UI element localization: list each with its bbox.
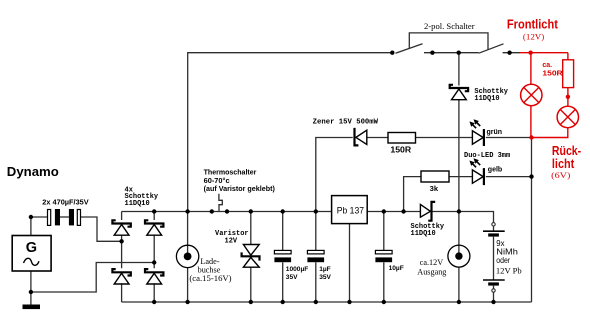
node dynamo plus junction (29, 215, 33, 219)
node AC1 bridge left (119, 239, 123, 243)
diode D2 bridge upper-right 11DQ10 (145, 220, 163, 235)
svg-text:oder: oder (496, 256, 510, 265)
wire zener to 150R (367, 137, 388, 139)
svg-text:3k: 3k (430, 184, 439, 193)
node ruecklicht junction red (529, 135, 533, 139)
node schottky top branch (457, 51, 461, 55)
wire right rail vertical (531, 138, 533, 303)
node thermoswitch right (225, 209, 229, 213)
node AC2 bridge right (152, 260, 156, 264)
resistor 3k box (421, 171, 449, 182)
node Pb137 ground (347, 300, 351, 304)
generator G dynamo box (12, 236, 51, 272)
svg-text:1µF: 1µF (319, 266, 331, 273)
svg-text:11DQ10: 11DQ10 (125, 200, 150, 208)
wire cap C1 branch (282, 212, 284, 303)
diode D5 schottky 11DQ10 top branch (450, 85, 468, 100)
node 3k riser (401, 209, 405, 213)
wire input bus rectifier to Pb137 (122, 211, 332, 213)
switch S2 blade (479, 44, 504, 53)
switch linkage bracket (409, 33, 488, 50)
wire gruen LED to right rail (486, 137, 530, 139)
wire ground stub (30, 292, 32, 305)
wire bridge right column (153, 212, 155, 303)
wire 3k to gelb LED (449, 176, 472, 178)
node C2 top (314, 209, 318, 213)
red wire frontlicht feed (520, 52, 568, 54)
node ruecklicht resistor red (566, 95, 570, 99)
svg-text:G: G (26, 240, 37, 256)
svg-text:buchse: buchse (198, 265, 221, 274)
battery 9x NiMh oder 12V Pb (483, 223, 505, 293)
svg-text:Zener 15V 500mW: Zener 15V 500mW (313, 119, 379, 127)
svg-text:10µF: 10µF (389, 265, 404, 272)
node bridge right bottom bus (152, 300, 156, 304)
wire top bus left segment (188, 53, 393, 212)
svg-text:(auf Varistor geklebt): (auf Varistor geklebt) (204, 184, 276, 193)
resistor 150R box (388, 133, 416, 144)
wire schottky top branch vertical (458, 53, 460, 212)
node ladebuchse top (185, 209, 189, 213)
zener diode 15V 500mW (355, 128, 367, 145)
node socket bottom (457, 300, 461, 304)
svg-text:Pb 137: Pb 137 (337, 206, 364, 217)
wire battery internal (493, 226, 495, 302)
node frontlicht feed red (528, 51, 532, 55)
svg-text:12V: 12V (225, 237, 238, 245)
svg-text:(6V): (6V) (551, 171, 571, 180)
wire dynamo plus to caps (31, 217, 48, 236)
svg-text:11DQ10: 11DQ10 (411, 230, 436, 238)
node switch1 contact (430, 51, 434, 55)
wire top bus between switches (424, 52, 479, 54)
diode D3 bridge lower-left 11DQ10 (112, 269, 130, 284)
node varistor bottom (249, 300, 253, 304)
svg-text:(12V): (12V) (523, 33, 545, 42)
resistor ca. 150R red (563, 53, 574, 107)
wire output socket branch (458, 212, 460, 303)
svg-text:150R: 150R (390, 146, 411, 155)
node C1 top (281, 209, 285, 213)
wire lade-buchse branch (187, 212, 189, 303)
svg-text:150R: 150R (542, 70, 562, 77)
svg-text:12V Pb: 12V Pb (496, 267, 522, 276)
svg-text:Frontlicht: Frontlicht (507, 17, 559, 32)
red wire frontlicht lamp branch (530, 53, 532, 138)
svg-text:grün: grün (487, 129, 503, 136)
svg-text:(ca.15-16V): (ca.15-16V) (189, 274, 231, 283)
node ladebuchse bottom (185, 300, 189, 304)
node C3 bottom (382, 300, 386, 304)
wire caps to bridge (81, 217, 122, 241)
capacitor C1 1000uF 35V (274, 250, 291, 262)
node varistor top (249, 209, 253, 213)
wire cap 10uF branch (383, 212, 385, 303)
wire bottom bus (122, 301, 532, 303)
node bridge right top bus (152, 209, 156, 213)
svg-text:35V: 35V (319, 274, 331, 281)
lamp L1 Frontlicht (521, 84, 542, 105)
svg-text:gelb: gelb (488, 167, 502, 174)
svg-text:licht: licht (552, 157, 575, 171)
svg-text:Dynamo: Dynamo (7, 164, 59, 179)
wire gelb LED to right rail (486, 176, 532, 178)
LED gruen of Duo-LED (469, 119, 484, 146)
node thermoswitch left (210, 209, 214, 213)
wire zener branch riser (316, 138, 353, 212)
wire Pb137 ground leg (349, 224, 351, 302)
capacitor 2x 470uF/35V series pair (48, 209, 81, 225)
wire top bus after switch 2 (503, 52, 520, 54)
ground symbol (23, 305, 41, 310)
svg-text:2-pol. Schalter: 2-pol. Schalter (424, 21, 475, 31)
node output junction (457, 209, 461, 213)
svg-text:1000µF: 1000µF (286, 266, 309, 273)
thermoswitch symbol (219, 194, 222, 212)
capacitor C2 1uF 35V (307, 250, 324, 262)
socket Lade-buchse (176, 245, 198, 267)
wire 3k branch riser (404, 177, 421, 212)
node C1 bottom (281, 300, 285, 304)
node battery bottom (491, 300, 495, 304)
socket ca.12V Ausgang (448, 245, 470, 267)
diode D6 schottky 11DQ10 at regulator output (420, 202, 435, 221)
wire 150R to gruen LED (416, 137, 473, 139)
red wire ruecklicht bottom (531, 128, 568, 138)
node C2 bottom (314, 300, 318, 304)
node switch1 pivot (390, 51, 394, 55)
svg-text:35V: 35V (286, 274, 298, 281)
svg-text:ca.12V: ca.12V (420, 258, 444, 267)
varistor 12V symbol (242, 245, 260, 268)
node gelb right rail (529, 174, 533, 178)
switch S1 blade (396, 44, 423, 53)
wire output bus Pb137 to battery corner (367, 212, 493, 223)
node switch2 contact (507, 51, 511, 55)
regulator U1 Pb 137 box (332, 196, 368, 224)
node C3 top (382, 209, 386, 213)
svg-text:Duo-LED 3mm: Duo-LED 3mm (464, 152, 510, 160)
svg-text:2x 470µF/35V: 2x 470µF/35V (42, 198, 89, 207)
svg-text:Ausgang: Ausgang (417, 267, 446, 276)
svg-text:ca.: ca. (542, 62, 552, 69)
wire cap C2 branch (315, 212, 317, 303)
diode D4 bridge lower-right 11DQ10 (145, 269, 163, 284)
wire varistor branch (250, 212, 252, 303)
node dynamo minus junction (29, 290, 33, 294)
svg-text:11DQ10: 11DQ10 (474, 95, 499, 103)
capacitor C3 10uF (375, 250, 392, 262)
wire dynamo minus to bridge (31, 263, 154, 293)
diode D1 bridge upper-left 11DQ10 (112, 220, 130, 235)
svg-text:Rück-: Rück- (552, 144, 581, 158)
lamp L2 Ruecklicht (557, 106, 578, 127)
wire bridge left column (121, 212, 123, 303)
LED gelb of Duo-LED (469, 158, 484, 185)
